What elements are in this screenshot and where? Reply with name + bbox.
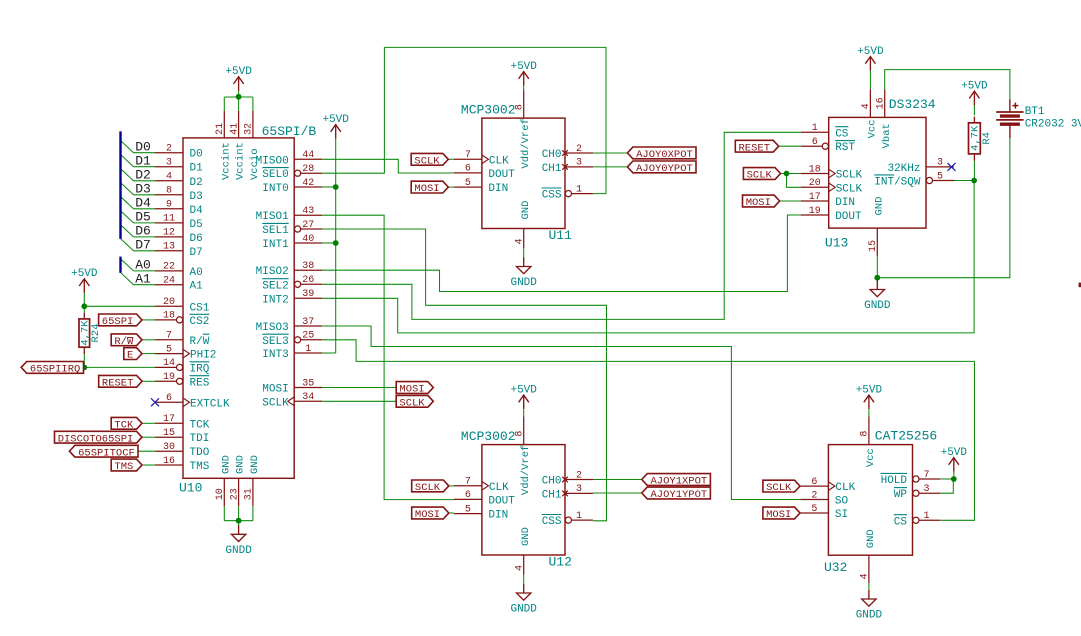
svg-text:11: 11 (163, 214, 175, 225)
svg-text:CSS: CSS (542, 516, 562, 528)
svg-text:CH1: CH1 (542, 489, 562, 501)
svg-text:44: 44 (302, 150, 314, 161)
svg-text:3: 3 (576, 158, 582, 169)
svg-text:27: 27 (302, 220, 314, 231)
svg-text:3: 3 (923, 484, 929, 495)
svg-text:TMS: TMS (190, 461, 210, 473)
svg-text:TCK: TCK (190, 419, 210, 431)
svg-text:22: 22 (163, 262, 175, 273)
svg-text:SEL1: SEL1 (262, 225, 289, 237)
svg-text:5: 5 (811, 504, 817, 515)
svg-text:INT2: INT2 (262, 294, 288, 306)
svg-text:R/W: R/W (190, 336, 210, 348)
svg-text:CLK: CLK (489, 482, 509, 494)
svg-text:34: 34 (302, 392, 314, 403)
svg-text:5: 5 (465, 504, 471, 515)
svg-text:SCLK: SCLK (766, 482, 792, 494)
svg-text:A0: A0 (190, 267, 203, 279)
svg-text:5: 5 (937, 171, 943, 182)
svg-text:SEL0: SEL0 (262, 169, 288, 181)
svg-text:Vcc: Vcc (865, 448, 877, 467)
svg-text:20: 20 (809, 178, 821, 189)
svg-text:1: 1 (812, 123, 818, 134)
svg-text:8: 8 (515, 431, 526, 437)
svg-text:RES: RES (190, 377, 210, 389)
svg-text:26: 26 (302, 275, 314, 286)
svg-text:CAT25256: CAT25256 (875, 429, 937, 444)
svg-text:25: 25 (302, 331, 314, 342)
svg-text:28: 28 (302, 164, 314, 175)
svg-text:D5: D5 (190, 219, 203, 231)
svg-text:43: 43 (302, 206, 314, 217)
svg-text:21: 21 (215, 123, 226, 135)
svg-text:D5: D5 (135, 210, 151, 225)
svg-text:Vccint: Vccint (235, 142, 247, 180)
svg-text:16: 16 (163, 456, 175, 467)
svg-text:35: 35 (302, 378, 314, 389)
svg-text:MOSI: MOSI (414, 183, 439, 195)
svg-text:1: 1 (576, 511, 582, 522)
svg-text:D3: D3 (135, 182, 151, 197)
svg-text:AJOY0YPOT: AJOY0YPOT (636, 163, 693, 175)
svg-text:GND: GND (520, 201, 532, 220)
svg-text:SCLK: SCLK (399, 397, 425, 409)
svg-text:6: 6 (465, 490, 471, 501)
svg-text:7: 7 (465, 150, 471, 161)
svg-text:U11: U11 (549, 228, 573, 243)
svg-text:DIN: DIN (488, 510, 508, 522)
svg-text:INT/SQW: INT/SQW (874, 177, 921, 189)
svg-text:3: 3 (937, 158, 943, 169)
svg-text:DOUT: DOUT (488, 169, 515, 181)
svg-text:CS: CS (835, 128, 849, 140)
svg-text:E: E (127, 350, 133, 362)
svg-text:7: 7 (166, 331, 172, 342)
svg-text:INT1: INT1 (262, 239, 289, 251)
svg-text:D2: D2 (190, 177, 203, 189)
svg-text:MOSI: MOSI (399, 384, 424, 396)
svg-text:MCP3002: MCP3002 (461, 103, 516, 118)
svg-text:DOUT: DOUT (488, 495, 515, 507)
svg-text:SCLK: SCLK (747, 170, 773, 182)
svg-text:14: 14 (163, 358, 175, 369)
svg-text:DOUT: DOUT (835, 211, 862, 223)
svg-text:2: 2 (166, 144, 172, 155)
svg-text:CSS: CSS (542, 190, 562, 202)
svg-text:4: 4 (860, 573, 871, 579)
svg-text:CS: CS (894, 516, 908, 528)
svg-text:SCLK: SCLK (836, 170, 863, 182)
svg-text:EXTCLK: EXTCLK (190, 398, 230, 410)
svg-text:MISO3: MISO3 (256, 322, 289, 334)
svg-text:12: 12 (163, 228, 175, 239)
svg-text:4: 4 (515, 238, 526, 244)
svg-text:MCP3002: MCP3002 (461, 429, 516, 444)
svg-text:SCLK: SCLK (415, 482, 441, 494)
svg-text:Vdd/Vref: Vdd/Vref (520, 445, 532, 495)
svg-text:GND: GND (249, 455, 261, 474)
svg-text:MOSI: MOSI (766, 509, 791, 521)
svg-text:D7: D7 (135, 238, 151, 253)
svg-text:INT0: INT0 (262, 183, 288, 195)
svg-text:20: 20 (163, 297, 175, 308)
svg-text:D4: D4 (190, 205, 204, 217)
svg-text:PHI2: PHI2 (190, 350, 216, 362)
svg-text:DIN: DIN (488, 183, 508, 195)
svg-text:Vccint: Vccint (220, 142, 232, 180)
svg-text:6: 6 (811, 477, 817, 488)
svg-text:40: 40 (302, 234, 314, 245)
svg-text:65SPI: 65SPI (102, 316, 134, 328)
svg-text:65SPI/B: 65SPI/B (262, 124, 317, 139)
svg-text:39: 39 (302, 289, 314, 300)
svg-text:1: 1 (576, 184, 582, 195)
svg-text:65SPIIRQ: 65SPIIRQ (30, 364, 80, 376)
svg-text:65SPITOCF: 65SPITOCF (78, 447, 135, 459)
svg-text:CLK: CLK (489, 155, 509, 167)
svg-text:16: 16 (876, 97, 887, 109)
svg-text:RESET: RESET (102, 377, 134, 389)
svg-text:MOSI: MOSI (746, 197, 771, 209)
svg-text:2: 2 (576, 144, 582, 155)
svg-text:A0: A0 (135, 258, 151, 273)
svg-text:D7: D7 (190, 247, 203, 259)
svg-text:D1: D1 (190, 163, 204, 175)
svg-text:31: 31 (244, 488, 255, 500)
svg-text:INT3: INT3 (262, 349, 288, 361)
svg-text:CH0: CH0 (542, 149, 562, 161)
svg-text:SCLK: SCLK (414, 155, 440, 167)
svg-text:10: 10 (215, 488, 226, 500)
svg-text:CH1: CH1 (542, 163, 562, 175)
svg-text:6: 6 (812, 137, 818, 148)
svg-text:CS2: CS2 (190, 316, 210, 328)
svg-text:TCK: TCK (114, 419, 134, 431)
svg-text:D0: D0 (190, 149, 203, 161)
svg-text:9: 9 (166, 200, 172, 211)
svg-text:30: 30 (163, 442, 175, 453)
svg-text:3: 3 (576, 484, 582, 495)
svg-text:32KHz: 32KHz (887, 163, 920, 175)
svg-text:AJOY1YPOT: AJOY1YPOT (651, 489, 708, 501)
svg-text:SCLK: SCLK (262, 397, 289, 409)
svg-text:41: 41 (229, 123, 240, 135)
svg-text:CLK: CLK (835, 482, 855, 494)
svg-text:WP: WP (894, 489, 908, 501)
svg-text:D6: D6 (135, 224, 151, 239)
svg-text:U10: U10 (179, 481, 202, 496)
svg-text:1: 1 (923, 511, 929, 522)
svg-text:SCLK: SCLK (836, 183, 863, 195)
svg-text:D4: D4 (135, 196, 151, 211)
svg-text:8: 8 (515, 104, 526, 110)
svg-text:Vdd/Vref: Vdd/Vref (520, 118, 532, 168)
svg-text:SO: SO (835, 496, 849, 508)
svg-text:Vbat: Vbat (881, 123, 893, 148)
svg-text:R4: R4 (981, 132, 993, 145)
svg-text:SI: SI (835, 509, 848, 521)
svg-text:MISO1: MISO1 (256, 211, 289, 223)
svg-text:GNDD: GNDD (510, 277, 537, 289)
svg-text:GNDD: GNDD (225, 545, 252, 557)
svg-text:CR2032 3V: CR2032 3V (1025, 119, 1081, 131)
svg-text:HOLD: HOLD (881, 475, 908, 487)
svg-text:4,7K: 4,7K (970, 125, 982, 151)
svg-text:SEL3: SEL3 (262, 336, 288, 348)
svg-text:42: 42 (302, 178, 314, 189)
svg-text:7: 7 (465, 477, 471, 488)
svg-text:GNDD: GNDD (510, 604, 537, 616)
svg-text:GND: GND (874, 197, 886, 216)
svg-text:CH0: CH0 (542, 476, 562, 488)
svg-text:4: 4 (861, 103, 872, 109)
svg-text:19: 19 (809, 206, 821, 217)
svg-text:GND: GND (865, 529, 877, 548)
svg-text:TMS: TMS (114, 461, 133, 473)
svg-text:2: 2 (576, 470, 582, 481)
svg-text:1: 1 (305, 344, 311, 355)
svg-text:MOSI: MOSI (415, 509, 440, 521)
svg-text:4: 4 (515, 565, 526, 571)
svg-text:5: 5 (166, 344, 172, 355)
svg-text:D6: D6 (190, 233, 203, 245)
svg-text:13: 13 (163, 242, 175, 253)
svg-text:SEL2: SEL2 (262, 280, 288, 292)
svg-text:18: 18 (163, 311, 175, 322)
svg-text:AJOY0XPOT: AJOY0XPOT (636, 149, 693, 161)
svg-text:D3: D3 (190, 191, 203, 203)
svg-text:7: 7 (923, 470, 929, 481)
svg-text:Vccio: Vccio (249, 148, 261, 180)
svg-text:RESET: RESET (739, 142, 771, 154)
svg-text:D2: D2 (135, 168, 151, 183)
svg-text:A1: A1 (135, 272, 151, 287)
svg-text:DS3234: DS3234 (889, 97, 936, 112)
svg-text:17: 17 (163, 414, 175, 425)
svg-text:MISO2: MISO2 (256, 266, 289, 278)
svg-text:U13: U13 (825, 235, 848, 250)
svg-text:3: 3 (166, 158, 172, 169)
svg-text:DIN: DIN (835, 197, 855, 209)
svg-text:GND: GND (235, 455, 247, 474)
svg-text:IRQ: IRQ (190, 363, 210, 375)
svg-text:AJOY1XPOT: AJOY1XPOT (651, 476, 708, 488)
svg-text:U32: U32 (824, 560, 847, 575)
svg-text:24: 24 (163, 276, 175, 287)
svg-text:MOSI: MOSI (262, 384, 288, 396)
svg-text:GNDD: GNDD (856, 610, 883, 622)
svg-text:19: 19 (163, 372, 175, 383)
svg-text:Vcc: Vcc (867, 119, 879, 138)
svg-text:GND: GND (220, 455, 232, 474)
svg-text:GNDD: GNDD (864, 300, 891, 312)
svg-text:U12: U12 (549, 554, 572, 569)
svg-text:BT1: BT1 (1025, 106, 1045, 118)
svg-text:GND: GND (520, 527, 532, 546)
svg-text:TDI: TDI (190, 433, 210, 445)
svg-text:D0: D0 (135, 140, 151, 155)
svg-text:18: 18 (809, 164, 821, 175)
svg-text:6: 6 (465, 164, 471, 175)
svg-text:4: 4 (166, 172, 172, 183)
svg-text:32: 32 (244, 123, 255, 135)
svg-text:17: 17 (809, 192, 821, 203)
svg-text:15: 15 (868, 240, 879, 252)
svg-text:2: 2 (811, 490, 817, 501)
svg-text:A1: A1 (190, 281, 204, 293)
svg-text:15: 15 (163, 428, 175, 439)
svg-text:RST: RST (835, 142, 855, 154)
svg-text:23: 23 (229, 488, 240, 500)
svg-text:8: 8 (860, 431, 871, 437)
svg-text:TDO: TDO (190, 447, 210, 459)
svg-text:8: 8 (166, 186, 172, 197)
svg-text:DISCOTO65SPI: DISCOTO65SPI (58, 433, 134, 445)
svg-text:CS1: CS1 (190, 302, 210, 314)
svg-text:D1: D1 (135, 154, 151, 169)
svg-text:37: 37 (302, 317, 314, 328)
svg-text:6: 6 (166, 393, 172, 404)
svg-text:38: 38 (302, 261, 314, 272)
svg-text:5: 5 (465, 178, 471, 189)
